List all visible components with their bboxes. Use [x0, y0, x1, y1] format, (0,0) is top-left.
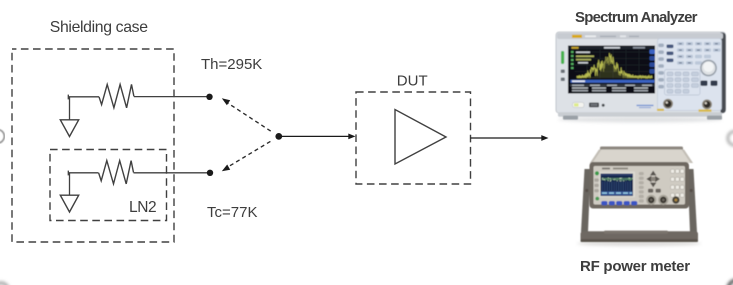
- N connectors: [663, 99, 673, 109]
- LN2 dashed enclosure: [50, 150, 167, 221]
- amplifier U1 (DUT triangle): [395, 110, 446, 165]
- spectrum analyzer instrument (Rigol DSA815 photo): [556, 32, 726, 120]
- label: Tc=77K: [207, 204, 257, 221]
- decorative page edge arcs: [0, 130, 4, 144]
- ground GND1: [60, 120, 78, 137]
- dashed arrow: switch common to node Th: [222, 98, 271, 131]
- left green LED strip: [561, 51, 564, 64]
- bottom controls: [573, 102, 585, 107]
- shielding case dashed enclosure: [12, 49, 174, 242]
- ground GND2: [60, 195, 78, 212]
- shadow under RF power meter: [577, 241, 701, 246]
- keypad panel: [658, 39, 722, 111]
- svg-text:LN2: LN2: [129, 199, 156, 216]
- resistor R2 (cold load, 77K): [99, 161, 134, 184]
- svg-text:Shielding case: Shielding case: [50, 19, 148, 36]
- label: RF power meter: [580, 258, 690, 275]
- svg-text:DUT: DUT: [397, 72, 428, 89]
- dashed arrow: switch common to node Tc: [222, 141, 271, 171]
- shadow under spectrum analyzer: [558, 117, 722, 123]
- wire: switch common node to DUT input (solid arrow): [279, 134, 356, 140]
- wire: GND1 stub tick: [67, 95, 69, 100]
- wire: resistor R1 to node Th: [134, 96, 210, 98]
- label: Th=295K: [201, 56, 262, 73]
- node Tc (junction dot): [207, 170, 213, 176]
- DUT dashed enclosure: [356, 92, 471, 184]
- wire: ground elbow to resistor R1: [68, 96, 99, 98]
- wire: down to ground GND2: [69, 173, 71, 195]
- knob: [700, 60, 717, 77]
- blue bar: [571, 80, 655, 83]
- wire: GND2 stub tick: [67, 171, 69, 176]
- svg-text:Spectrum Analyzer: Spectrum Analyzer: [575, 9, 698, 26]
- node SW (switch common junction dot): [275, 133, 282, 140]
- node Th (junction dot): [206, 94, 212, 100]
- right on-screen menu: [650, 50, 656, 55]
- screen: [568, 46, 655, 94]
- svg-text:Th=295K: Th=295K: [201, 56, 262, 73]
- table rows: [570, 84, 654, 86]
- resistor R1 (hot load, 295K): [99, 84, 134, 107]
- svg-text:Tc=77K: Tc=77K: [207, 204, 257, 221]
- RF power meter instrument (Agilent photo): [581, 147, 699, 243]
- label: DUT: [397, 72, 428, 89]
- label: LN2: [129, 199, 156, 216]
- wire: resistor R2 to node Tc: [134, 172, 211, 174]
- spectrum trace: [577, 53, 652, 78]
- wire: down to ground GND1: [69, 97, 71, 120]
- label: Spectrum Analyzer: [575, 9, 698, 26]
- base: [558, 112, 722, 117]
- wire: ground elbow to resistor R2: [68, 172, 98, 174]
- numeric keypad: [665, 70, 701, 96]
- wire: DUT output to instruments (solid arrow): [471, 135, 549, 141]
- svg-text:RF power meter: RF power meter: [580, 258, 690, 275]
- label: Shielding case: [50, 19, 148, 36]
